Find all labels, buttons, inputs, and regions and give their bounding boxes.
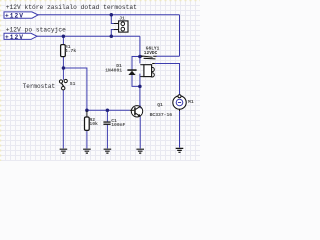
- wire J1 pin1 drop: [111, 15, 113, 24]
- junction net2/R1: [62, 35, 66, 39]
- ground (C1): [104, 149, 112, 153]
- wire R2 bottom to ground: [86, 130, 88, 148]
- svg-text:BC337-16: BC337-16: [150, 112, 173, 118]
- svg-text:M1: M1: [188, 99, 194, 105]
- relay K1 contact arm: [143, 56, 157, 63]
- connector J1: [114, 16, 128, 32]
- wire emitter to ground: [139, 116, 141, 148]
- ground (S1): [60, 149, 68, 153]
- ground (R2): [83, 149, 91, 153]
- relay arrowhead: [141, 55, 144, 57]
- wire J1 pin2 drop: [111, 30, 113, 37]
- svg-text:4.7k: 4.7k: [65, 48, 76, 54]
- wires (net 1: +12V dotad): [37, 15, 180, 149]
- resistor R2: [85, 110, 99, 130]
- svg-text:S1: S1: [70, 81, 76, 87]
- svg-text:+12V po stacyjce: +12V po stacyjce: [6, 26, 66, 33]
- wire net1 to relay contact P: [157, 55, 180, 57]
- junction net2/J1: [110, 35, 114, 39]
- wire net1 horizontal: [38, 14, 180, 16]
- wire to switch S1: [62, 68, 64, 80]
- junction base/C1: [106, 109, 110, 113]
- transistor Q1 BC337-16: [130, 102, 172, 118]
- wire motor to ground: [179, 110, 181, 148]
- svg-text:+12V: +12V: [5, 12, 23, 19]
- wire S1 to ground: [62, 90, 64, 148]
- svg-text:Q1: Q1: [157, 102, 163, 108]
- junction base/R2: [85, 109, 89, 113]
- edge tick marks: [0, 0, 200, 161]
- wire base net: [87, 109, 130, 111]
- wire coil bottom to collector: [139, 74, 141, 109]
- wire relay contact S to motor: [155, 64, 180, 96]
- wire R1 bottom to junction: [62, 57, 64, 68]
- wire C1 bottom to ground: [106, 125, 108, 149]
- wire C1 top stub: [106, 110, 108, 121]
- svg-text:Termostat: Termostat: [23, 83, 56, 90]
- wire diode bottom branch: [132, 75, 140, 87]
- capacitor C1 100nF: [103, 118, 125, 128]
- wire net2 horizontal: [37, 35, 140, 37]
- svg-text:1N4001: 1N4001: [105, 68, 122, 74]
- wire net2 vertical to coil: [139, 36, 141, 63]
- ground (Q1 emitter): [136, 149, 144, 153]
- junction dots: [62, 13, 142, 112]
- svg-text:+12V które zasilalo dotad term: +12V które zasilalo dotad termostat: [6, 4, 137, 11]
- svg-text:100nF: 100nF: [111, 122, 125, 128]
- junction R1/S1 branch: [62, 66, 66, 70]
- diode D1 1N4001: [105, 63, 136, 75]
- resistor R1: [61, 44, 77, 57]
- ground (M1): [176, 148, 184, 152]
- svg-text:12VDC: 12VDC: [144, 50, 158, 56]
- wire junction to base column: [63, 68, 87, 110]
- junction net1/J1: [110, 13, 114, 17]
- wire net1 right vertical: [179, 15, 181, 57]
- supply flag +12V (net 2): [4, 33, 37, 41]
- supply flag +12V (net 1): [4, 12, 38, 20]
- svg-text:J1: J1: [119, 16, 125, 22]
- svg-text:+12V: +12V: [5, 34, 23, 41]
- junction collector / diode: [138, 85, 142, 89]
- wire R1 top stub: [62, 36, 64, 44]
- relay K1 coil: [140, 65, 154, 77]
- switch S1 Termostat: [59, 79, 75, 90]
- wire diode top branch: [132, 57, 140, 70]
- svg-text:10k: 10k: [89, 121, 98, 127]
- junction coil top / diode: [138, 55, 142, 59]
- motor M1: [173, 95, 194, 111]
